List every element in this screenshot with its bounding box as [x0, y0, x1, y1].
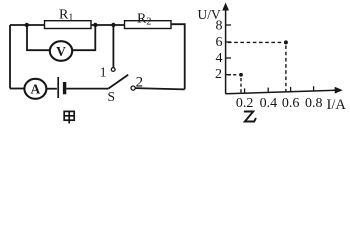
svg-text:4: 4 — [216, 51, 223, 66]
svg-text:S: S — [108, 89, 116, 104]
svg-text:0.2: 0.2 — [236, 96, 254, 111]
svg-text:A: A — [31, 82, 41, 97]
svg-text:2: 2 — [136, 74, 144, 90]
svg-text:2: 2 — [215, 67, 222, 82]
svg-text:I/A: I/A — [327, 97, 347, 113]
svg-text:0.4: 0.4 — [260, 96, 278, 111]
svg-text:V: V — [56, 44, 66, 59]
svg-text:1: 1 — [100, 65, 107, 80]
svg-text:8: 8 — [216, 18, 223, 33]
svg-text:0.8: 0.8 — [305, 96, 323, 111]
svg-text:6: 6 — [216, 35, 223, 50]
svg-text:0.6: 0.6 — [282, 96, 300, 111]
